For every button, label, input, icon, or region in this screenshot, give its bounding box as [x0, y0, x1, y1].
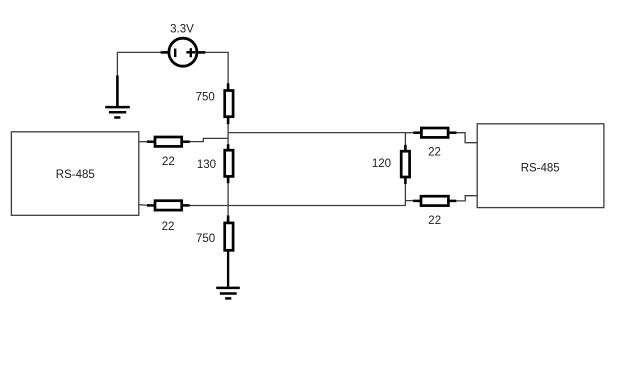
svg-text:120: 120 — [372, 158, 391, 170]
svg-text:RS-485: RS-485 — [56, 169, 95, 181]
svg-text:22: 22 — [162, 156, 175, 168]
svg-text:RS-485: RS-485 — [521, 162, 560, 174]
svg-text:750: 750 — [196, 233, 215, 245]
svg-text:22: 22 — [162, 221, 175, 233]
svg-text:22: 22 — [428, 147, 441, 159]
svg-text:3.3V: 3.3V — [170, 24, 194, 36]
svg-text:22: 22 — [428, 215, 441, 227]
svg-text:130: 130 — [197, 159, 216, 171]
svg-text:750: 750 — [196, 92, 215, 104]
